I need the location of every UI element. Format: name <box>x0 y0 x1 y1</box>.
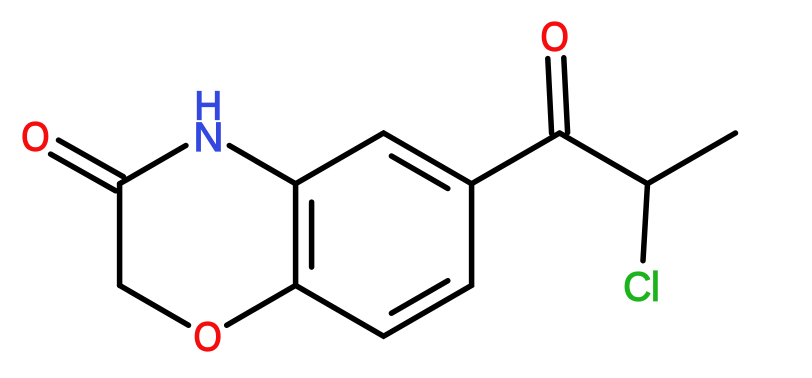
double bond C3=O (lactam carbonyl) <box>59 140 124 177</box>
bond N4-C3 <box>120 146 186 184</box>
bond N4-C4a <box>229 146 295 184</box>
aromatic inner line C4a=C8a <box>309 202 315 267</box>
bond C6-C9 <box>472 133 560 184</box>
benzene ring C4a-C5-C6-C7-C8-C8a <box>296 133 472 336</box>
svg-text:Cl: Cl <box>623 264 660 310</box>
bond C10-C11 (methyl) <box>648 133 736 184</box>
bond C10-Cl <box>643 184 648 261</box>
bond O1-C8a <box>227 285 296 325</box>
svg-text:N: N <box>193 114 223 160</box>
bond C3-C2 <box>117 184 123 286</box>
double bond C9=O (ketone) <box>564 58 568 133</box>
svg-text:O: O <box>541 13 569 59</box>
aromatic inner line C5=C6 <box>391 156 447 189</box>
bond C2-O1 <box>120 285 189 325</box>
svg-text:O: O <box>193 313 221 359</box>
svg-text:O: O <box>21 113 49 159</box>
bond C9-C10 <box>560 133 648 184</box>
aromatic inner line C7=C8 <box>391 281 447 314</box>
